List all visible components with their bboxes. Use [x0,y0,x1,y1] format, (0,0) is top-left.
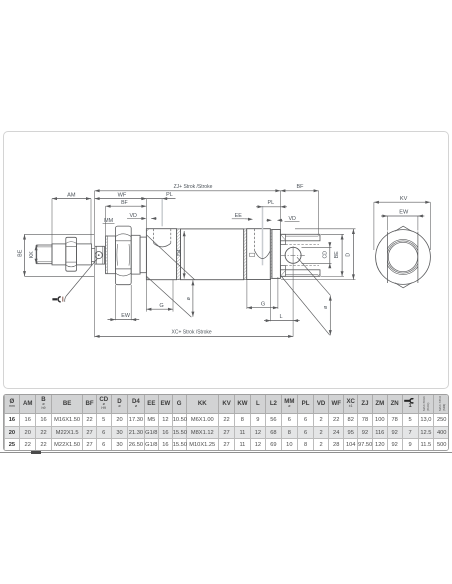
svg-text:(BAR): (BAR) [426,403,430,411]
cylinder tube [181,229,244,280]
clevis top bar [280,234,320,244]
svg-text:PL: PL [268,200,275,206]
end view outer circle [376,230,431,285]
dim BE right [321,234,344,276]
label EE left [232,213,253,221]
svg-text:CD: CD [323,251,329,259]
front tube seam [177,229,181,280]
mounting nut [115,226,131,285]
dimension table [3,394,449,451]
rear thread hatch [270,230,272,279]
svg-text:PL: PL [166,192,173,198]
dim PL left [141,192,175,200]
dim G left [146,280,173,312]
wrench flat circle [95,252,102,259]
rod wrench flat block [95,246,105,264]
dim WF [95,192,147,228]
svg-text:BF: BF [297,184,305,190]
svg-text:AM: AM [67,192,76,198]
diagonal dia dim clevis hole [282,257,332,335]
front port hidden lines [154,199,171,247]
diagonal dia dim cap [147,235,195,317]
svg-text:BE: BE [17,249,23,257]
svg-text:WF: WF [118,192,127,198]
dim PL right [256,200,287,208]
wrench symbol [52,297,62,302]
dim AM [52,192,91,244]
dim BF right [280,184,318,234]
end view hex corner peaks [395,226,412,288]
cap thread neck [106,236,116,274]
dim CD [302,242,332,268]
piston rod thread KK [37,245,52,264]
svg-text:EE: EE [235,213,243,219]
head cap [146,229,176,280]
dim G right [247,277,278,309]
rear tube seam [244,229,247,280]
dim EW end view [381,209,424,230]
svg-text:D: D [346,253,352,257]
svg-text:XC+ Strok /Stroke: XC+ Strok /Stroke [172,329,212,335]
hole centerlines [281,246,306,336]
svg-text:BF: BF [121,200,128,206]
dim D [281,229,356,280]
leader to wrench symbol [65,259,98,302]
end view flats [387,232,418,283]
dim ZJ stroke [95,184,281,246]
label VD right [267,216,300,222]
svg-text:EW: EW [399,209,409,215]
rear cap [247,229,271,280]
svg-text:D4: D4 [177,249,183,256]
svg-text:ø: ø [323,305,329,309]
svg-text:G: G [261,301,265,307]
clevis bottom bar [280,266,320,277]
label MM [103,218,115,224]
dim BF left [106,200,147,236]
rod lock nut [66,237,77,271]
dim KV [374,196,430,250]
svg-text:KK: KK [29,251,35,259]
svg-text:(MM): (MM) [442,404,446,411]
drawing card [3,131,449,390]
collar [131,235,146,274]
svg-text:KV: KV [400,196,408,202]
dim BE left vertical [17,234,94,276]
dim EW nut [108,285,140,321]
clevis plate [272,230,281,279]
rear port hidden lines [250,206,271,265]
label VD left [127,213,157,220]
svg-text:ø: ø [186,296,192,300]
dim XC stroke [95,264,294,338]
svg-text:EW: EW [121,313,131,319]
svg-text:L: L [279,314,282,320]
clevis pin hole [285,247,301,263]
svg-text:G: G [159,303,163,309]
bottom rule [0,452,452,453]
dim L [264,279,300,322]
bottom rule dark tick [31,451,41,453]
svg-text:BE: BE [334,251,340,258]
svg-text:ZJ+ Strok /Stroke: ZJ+ Strok /Stroke [174,184,213,190]
piston rod [52,244,95,265]
dim KK vertical [29,245,38,264]
dim D4 [177,231,186,279]
